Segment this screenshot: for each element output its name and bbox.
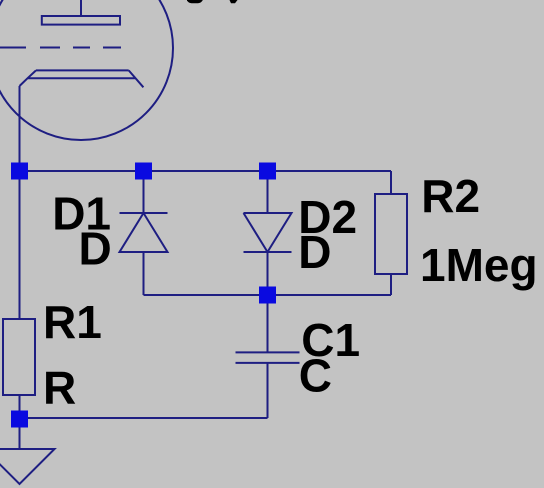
wire D1 to mid rail [143,252,145,295]
svg-text:R: R [43,362,76,414]
svg-text:D: D [298,226,331,278]
triode U1 grid (dashed) [0,47,121,49]
wire top rail corner to R2 [390,171,392,194]
node junction J2 [135,163,152,180]
wire R1 bottom to ground [19,395,21,449]
diode D2 body [244,213,292,252]
wire J2 to D1 [143,171,145,213]
resistor R2 body [375,194,407,274]
svg-text:C: C [299,350,332,402]
node junction J3 [259,163,276,180]
svg-text:R1: R1 [43,296,102,348]
triode U1 plate lead [80,0,82,16]
node junction J4 [259,287,276,304]
label U1 (cut off at top edge, only glyph bottoms visible) [187,0,238,3]
wire cathode lead down [19,86,21,171]
wire J4 to C1 [267,295,269,352]
node junction J5 [11,411,28,428]
wire J3 to D2 [267,171,269,213]
wire C1 to bottom rail [267,363,269,418]
wire R2 bottom to mid rail [390,274,392,295]
wire D2 to J4 [267,252,269,295]
wire top rail [20,170,392,172]
triode U1 envelope circle [0,0,173,140]
wire left rail J1 to R1 [19,171,21,319]
wire mid rail [144,294,392,296]
svg-text:R2: R2 [421,170,480,222]
svg-text:D: D [79,222,112,274]
triode U1 plate (anode) [42,16,120,25]
wire bottom rail [20,417,268,419]
svg-text:1Meg: 1Meg [420,239,538,291]
capacitor C1 plates [236,352,300,363]
resistor R1 body [3,319,35,395]
triode U1 cathode [20,70,144,87]
node junction J1 [11,163,28,180]
ground [0,449,55,484]
diode D1 body [120,213,168,252]
